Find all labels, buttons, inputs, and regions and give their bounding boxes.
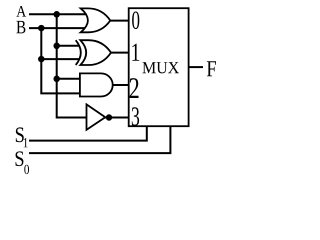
wire XOR output to MUX input 1 (111, 52, 130, 54)
wire AND top input (57, 78, 81, 80)
junction dot XOR bottom (38, 56, 45, 63)
label S1 S (16, 127, 24, 142)
label F (207, 61, 216, 76)
label S0 sub (24, 165, 29, 174)
wire inverter output to MUX input 3 (105, 117, 129, 119)
junction dot XOR top (53, 43, 60, 50)
label S0 S (16, 151, 24, 166)
inverter G4 (87, 104, 106, 129)
wire S1 select (29, 126, 147, 140)
label MUX (142, 62, 179, 73)
or-gate G1 (81, 8, 111, 32)
label input 2 (130, 78, 139, 98)
wire MUX output F (189, 66, 203, 68)
junction dot A wire (53, 11, 60, 17)
and-gate G3 (80, 73, 113, 96)
wire B horizontal (29, 27, 88, 29)
wire B bus vertical (41, 28, 80, 93)
wire S0 select (29, 126, 170, 153)
label input 1 (132, 44, 139, 61)
junction dot B wire (38, 25, 45, 32)
xor-gate G2 (76, 40, 111, 65)
junction dot AND top (53, 76, 60, 83)
wire OR output to MUX input 0 (110, 20, 129, 22)
wire XOR top input (57, 45, 80, 47)
wire AND output to MUX input 2 (113, 84, 130, 86)
wire A horizontal (29, 13, 88, 15)
MUX box U1 (129, 8, 189, 126)
inverter bubble (filled dot) (106, 114, 112, 120)
label S1 sub (24, 138, 28, 147)
wire A bus vertical (57, 14, 87, 117)
label B (16, 21, 25, 34)
label A (16, 6, 26, 17)
wire XOR bottom input (41, 58, 79, 60)
label input 0 (132, 12, 139, 30)
label input 3 (132, 107, 139, 125)
